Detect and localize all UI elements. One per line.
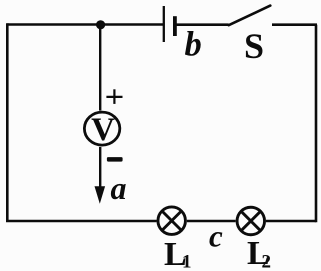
svg-text:2: 2: [262, 252, 272, 271]
svg-text:a: a: [111, 170, 127, 206]
svg-text:c: c: [209, 219, 223, 254]
svg-text:V: V: [91, 112, 115, 148]
svg-text:b: b: [185, 26, 202, 64]
svg-text:S: S: [244, 26, 264, 66]
svg-text:1: 1: [182, 252, 192, 271]
